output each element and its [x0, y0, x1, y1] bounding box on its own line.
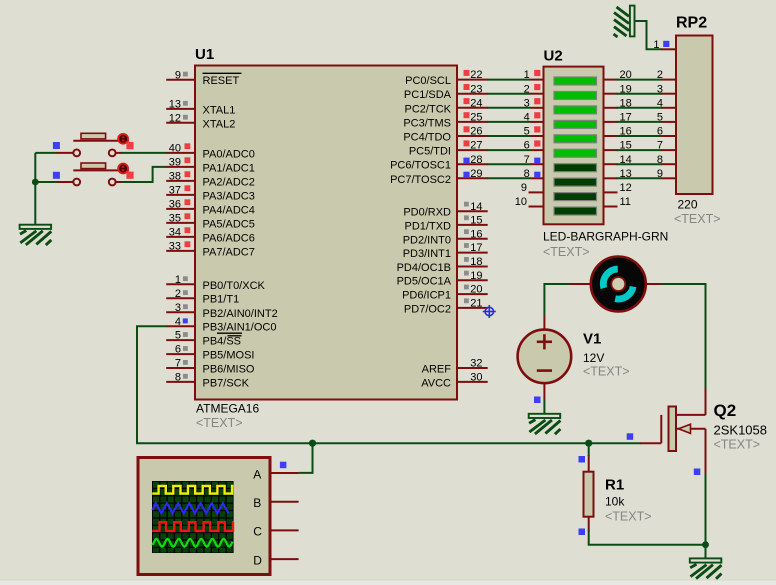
U2 LED segment 10 (off) — [554, 207, 597, 215]
wire U2 pin 19 to RP2 pin 3 — [617, 93, 662, 95]
svg-text:PA1/ADC1: PA1/ADC1 — [203, 162, 255, 174]
svg-text:XTAL1: XTAL1 — [203, 104, 236, 116]
RP2 pin 5 — [657, 112, 676, 124]
U1 pin 26 PC4/TDO — [403, 126, 487, 144]
svg-text:40: 40 — [169, 143, 181, 155]
svg-text:PD1/TXD: PD1/TXD — [405, 220, 452, 232]
svg-text:8: 8 — [657, 154, 663, 166]
origin marker at U1 pin 21 — [483, 305, 496, 318]
wire anchor marker button 2 — [53, 172, 60, 179]
svg-text:PA7/ADC7: PA7/ADC7 — [203, 246, 255, 258]
push button 1 — [56, 133, 129, 156]
U1 pin 4 PB3/AIN1/OC0 — [166, 316, 276, 334]
wire U1 PC5 to U2 pin 6 — [487, 149, 531, 151]
svg-text:B: B — [253, 496, 261, 510]
motor — [569, 257, 662, 312]
U1 pin 1 PB0/T0/XCK — [166, 274, 265, 292]
U2 LED segment 9 (off) — [554, 193, 597, 201]
U2 LED segment 1 (lit) — [554, 77, 597, 85]
svg-text:32: 32 — [470, 358, 482, 370]
node junction at button rail — [32, 179, 39, 186]
U1 pin 21 PD7/OC2 — [404, 298, 488, 316]
oscilloscope channel A pin — [253, 467, 298, 481]
svg-text:5: 5 — [657, 112, 663, 124]
svg-text:9: 9 — [657, 168, 663, 180]
U1 pin 37 PA3/ADC3 — [166, 185, 255, 203]
state marker button 1 — [126, 142, 133, 149]
RP2 pin 9 — [657, 168, 676, 180]
wire U1 PC0 to U2 pin 1 — [487, 79, 531, 81]
U2 LED segment 2 (lit) — [554, 91, 597, 99]
svg-text:2: 2 — [175, 288, 181, 300]
svg-text:4: 4 — [524, 112, 530, 124]
svg-text:PC3/TMS: PC3/TMS — [403, 117, 451, 129]
U2 pin 6 — [524, 140, 544, 152]
svg-text:26: 26 — [470, 126, 482, 138]
wire U1 PC4 to U2 pin 5 — [487, 135, 531, 137]
wire motor right terminal to Q2 drain — [662, 284, 706, 387]
svg-text:39: 39 — [169, 157, 181, 169]
svg-text:LED-BARGRAPH-GRN: LED-BARGRAPH-GRN — [543, 230, 668, 244]
wire R1 top drop — [588, 443, 590, 456]
ground (below V1) — [529, 414, 561, 434]
U1 pin 22 PC0/SCL — [405, 69, 488, 87]
U2 LED segment 5 (lit) — [554, 135, 597, 143]
svg-text:<TEXT>: <TEXT> — [714, 438, 761, 452]
svg-text:AREF: AREF — [422, 364, 452, 376]
node junction at R1 top — [585, 440, 592, 447]
scope trace channel D (green sine wave) — [153, 539, 233, 547]
U2 LED segment 7 (off) — [554, 164, 597, 172]
U1 pin 25 PC3/TMS — [403, 112, 487, 130]
U2 pin 4 — [524, 112, 544, 124]
svg-text:6: 6 — [175, 344, 181, 356]
svg-text:RP2: RP2 — [676, 15, 707, 32]
scope trace channel A (yellow square wave) — [152, 486, 233, 494]
U1 pin 9 RESET — [166, 69, 241, 87]
U1 pin 24 PC2/TCK — [405, 97, 488, 115]
U2 LED segment 3 (lit) — [554, 106, 597, 114]
RP2 pin 8 — [657, 154, 676, 166]
svg-text:2SK1058: 2SK1058 — [714, 423, 768, 438]
wire junction to scope channel A — [299, 443, 313, 473]
state marker RP2 pin 1 — [663, 41, 669, 47]
svg-text:4: 4 — [657, 97, 663, 109]
U2 pin 14 — [604, 154, 632, 166]
wire U2 pin 15 to RP2 pin 7 — [617, 149, 662, 151]
svg-text:9: 9 — [521, 182, 527, 194]
svg-text:PB1/T1: PB1/T1 — [203, 294, 240, 306]
transistor Q2 — [640, 387, 706, 474]
U1 pin 2 PB1/T1 — [166, 288, 239, 306]
wire anchor marker button 1 — [53, 142, 60, 149]
svg-text:22: 22 — [470, 69, 482, 81]
U1 pin 32 AREF — [422, 358, 488, 376]
push button 2 — [56, 163, 129, 185]
svg-text:V1: V1 — [583, 331, 601, 348]
ground (left, below buttons) — [20, 225, 52, 245]
U2 pin 5 — [524, 126, 544, 138]
svg-text:7: 7 — [657, 140, 663, 152]
wire anchor marker at R1 top — [579, 456, 586, 463]
wire button 1 to U1 PA0 — [121, 152, 167, 154]
svg-text:AVCC: AVCC — [421, 377, 451, 389]
svg-text:PB0/T0/XCK: PB0/T0/XCK — [203, 280, 266, 292]
svg-text:PC5/TDI: PC5/TDI — [409, 146, 451, 158]
svg-text:A: A — [253, 467, 261, 481]
state marker button 2 — [126, 172, 133, 179]
svg-text:PC4/TDO: PC4/TDO — [403, 132, 451, 144]
svg-text:ATMEGA16: ATMEGA16 — [196, 402, 259, 416]
wire U2 pin 20 to RP2 pin 2 — [617, 79, 662, 81]
svg-text:Q2: Q2 — [714, 401, 737, 420]
RP2 pin 4 — [657, 97, 676, 109]
U2 pin 8 — [524, 168, 544, 180]
svg-text:U1: U1 — [195, 46, 214, 63]
svg-text:PA3/ADC3: PA3/ADC3 — [203, 190, 255, 202]
svg-text:5: 5 — [175, 330, 181, 342]
svg-text:12: 12 — [620, 182, 632, 194]
wire U2 pin 18 to RP2 pin 4 — [617, 107, 662, 109]
wire Q2 source to ground net — [705, 473, 707, 545]
svg-text:1: 1 — [524, 69, 530, 81]
svg-text:29: 29 — [470, 168, 482, 180]
wire anchor marker at V1 negative — [534, 397, 541, 404]
svg-text:7: 7 — [175, 358, 181, 370]
RP2 pin 2 — [657, 69, 676, 81]
svg-text:9: 9 — [175, 69, 181, 81]
U1 pin 33 PA7/ADC7 — [166, 241, 255, 259]
wire button 2 to U1 PA1 — [121, 167, 167, 182]
svg-text:PD3/INT1: PD3/INT1 — [403, 248, 451, 260]
svg-text:PA4/ADC4: PA4/ADC4 — [203, 204, 255, 216]
svg-text:25: 25 — [470, 112, 482, 124]
svg-text:2: 2 — [657, 69, 663, 81]
U1 pin 15 PD1/TXD — [405, 215, 488, 233]
svg-text:4: 4 — [175, 316, 181, 328]
svg-text:3: 3 — [175, 302, 181, 314]
wire U1 PC6 to U2 pin 7 — [487, 163, 531, 165]
wire R1 bottom to ground net — [589, 530, 706, 545]
svg-text:PC6/TOSC1: PC6/TOSC1 — [390, 160, 451, 172]
svg-text:PA2/ADC2: PA2/ADC2 — [203, 176, 255, 188]
wire junction to bottom ground — [705, 545, 707, 559]
U2 pin 20 — [604, 69, 632, 81]
U1 pin 28 PC6/TOSC1 — [390, 154, 488, 172]
svg-text:21: 21 — [470, 298, 482, 310]
svg-text:PB6/MISO: PB6/MISO — [203, 364, 255, 376]
U2 pin 2 — [524, 83, 544, 95]
U1 pin 36 PA4/ADC4 — [166, 199, 255, 217]
svg-text:6: 6 — [657, 126, 663, 138]
U2 pin 13 — [604, 168, 632, 180]
RP2 pin 1 — [653, 39, 676, 51]
U2 pin 3 — [524, 97, 544, 109]
svg-text:30: 30 — [470, 372, 482, 384]
RP2 pin 3 — [657, 83, 676, 95]
svg-text:8: 8 — [524, 168, 530, 180]
wire U1 PC7 to U2 pin 8 — [487, 177, 531, 179]
svg-text:11: 11 — [620, 196, 631, 208]
U1 pin 35 PA5/ADC5 — [166, 213, 255, 231]
svg-text:38: 38 — [169, 171, 181, 183]
U2 pin 9 — [521, 182, 544, 194]
wire U2 pin 17 to RP2 pin 5 — [617, 121, 662, 123]
U1 pin 12 XTAL2 — [166, 112, 235, 130]
svg-text:17: 17 — [470, 242, 482, 254]
RP2 pin 6 — [657, 126, 676, 138]
svg-text:C: C — [253, 525, 262, 539]
U1 pin 40 PA0/ADC0 — [166, 143, 255, 161]
svg-text:R1: R1 — [605, 477, 624, 494]
U2 pin 1 — [524, 69, 544, 81]
svg-text:<TEXT>: <TEXT> — [583, 365, 630, 379]
U1 pin 29 PC7/TOSC2 — [390, 168, 488, 186]
RP2 pin 7 — [657, 140, 676, 152]
U1 pin 16 PD2/INT0 — [403, 228, 488, 246]
wire U1 PC2 to U2 pin 3 — [487, 107, 531, 109]
U2 LED segment 8 (off) — [554, 178, 597, 186]
U1 pin 17 PD3/INT1 — [403, 242, 488, 260]
U2 pin 16 — [604, 126, 632, 138]
wire U1 PC3 to U2 pin 4 — [487, 121, 531, 123]
oscilloscope screen grid — [152, 481, 234, 553]
U1 pin 13 XTAL1 — [166, 99, 235, 117]
U1 pin 27 PC5/TDI — [409, 140, 488, 158]
wire button 2 left to ground rail — [35, 181, 56, 183]
U1 pin 6 PB5/MOSI — [166, 344, 254, 362]
wire button 1 left to ground rail — [35, 152, 56, 154]
wire U1 PC1 to U2 pin 2 — [487, 93, 531, 95]
wire RP2 pin 1 to ground — [635, 21, 662, 49]
node junction at bottom right — [702, 541, 709, 548]
svg-text:13: 13 — [169, 99, 181, 111]
node junction at scope branch — [309, 440, 316, 447]
svg-text:PB3/AIN1/OC0: PB3/AIN1/OC0 — [203, 322, 277, 334]
svg-text:PD4/OC1B: PD4/OC1B — [397, 262, 451, 274]
U2 pin 11 — [604, 196, 631, 208]
svg-text:PD7/OC2: PD7/OC2 — [404, 303, 451, 315]
svg-text:D: D — [253, 553, 262, 567]
U2 pin 10 — [515, 196, 544, 208]
svg-text:24: 24 — [470, 97, 482, 109]
svg-text:PD2/INT0: PD2/INT0 — [403, 234, 451, 246]
U1 pin 39 PA1/ADC1 — [166, 157, 255, 175]
oscilloscope channel D pin — [253, 553, 298, 567]
battery V1 — [518, 316, 572, 400]
svg-text:28: 28 — [470, 154, 482, 166]
svg-text:PB2/AIN0/INT2: PB2/AIN0/INT2 — [203, 308, 278, 320]
svg-text:PC0/SCL: PC0/SCL — [405, 75, 451, 87]
svg-text:PB7/SCK: PB7/SCK — [203, 377, 250, 389]
svg-text:PC2/TCK: PC2/TCK — [405, 103, 452, 115]
U1 pin 34 PA6/ADC6 — [166, 227, 255, 245]
wire motor left terminal to V1 positive — [544, 284, 569, 316]
svg-text:23: 23 — [470, 83, 482, 95]
U1 pin 5 PB4/SS — [166, 330, 241, 348]
svg-text:34: 34 — [169, 227, 181, 239]
svg-text:27: 27 — [470, 140, 482, 152]
svg-text:3: 3 — [524, 97, 530, 109]
svg-text:10k: 10k — [605, 495, 625, 509]
U2 pin 7 — [524, 154, 544, 166]
oscilloscope channel B pin — [253, 496, 298, 510]
U1 pin 14 PD0/RXD — [403, 201, 487, 219]
svg-text:<TEXT>: <TEXT> — [543, 245, 590, 259]
svg-text:19: 19 — [470, 270, 482, 282]
svg-text:16: 16 — [470, 228, 482, 240]
U1 pin 8 PB7/SCK — [166, 372, 249, 390]
svg-text:33: 33 — [169, 241, 181, 253]
svg-text:14: 14 — [470, 201, 482, 213]
ground (top, at RP2 pin 1) — [614, 6, 635, 37]
wire U2 pin 13 to RP2 pin 9 — [617, 177, 662, 179]
svg-text:15: 15 — [470, 215, 482, 227]
wire anchor marker on source wire — [694, 469, 701, 476]
wire anchor marker at R1 bottom — [579, 529, 586, 536]
wire ground rail vertical — [34, 153, 36, 225]
svg-text:PD5/OC1A: PD5/OC1A — [397, 276, 452, 288]
svg-text:36: 36 — [169, 199, 181, 211]
svg-text:35: 35 — [169, 213, 181, 225]
U1 pin 23 PC1/SDA — [404, 83, 488, 101]
wire anchor marker on gate wire — [627, 433, 634, 440]
svg-text:12V: 12V — [583, 351, 604, 365]
scope trace channel C (red square wave) — [152, 522, 233, 531]
resistor pack RP2 body — [676, 36, 713, 195]
LED bargraph U2 body — [544, 67, 604, 225]
svg-text:220: 220 — [678, 198, 698, 212]
U1 pin 3 PB2/AIN0/INT2 — [166, 302, 278, 320]
svg-text:20: 20 — [470, 284, 482, 296]
U1 pin 7 PB6/MISO — [166, 358, 255, 376]
U1 pin 30 AVCC — [421, 372, 487, 390]
ground (bottom right) — [690, 558, 722, 578]
U2 pin 15 — [604, 140, 632, 152]
svg-text:10: 10 — [515, 196, 527, 208]
wire U2 pin 16 to RP2 pin 6 — [617, 135, 662, 137]
svg-text:7: 7 — [524, 154, 530, 166]
svg-text:XTAL2: XTAL2 — [203, 118, 236, 130]
svg-text:8: 8 — [175, 372, 181, 384]
svg-text:PC1/SDA: PC1/SDA — [404, 89, 452, 101]
scope trace channel B (blue triangle wave) — [153, 503, 229, 513]
wire V1 negative to ground — [543, 400, 545, 414]
svg-text:1: 1 — [175, 274, 181, 286]
U2 LED segment 6 (lit) — [554, 149, 597, 157]
U1 pin 20 PD6/ICP1 — [402, 284, 488, 302]
IC U1 ATMEGA16 body — [195, 66, 457, 400]
U2 pin 17 — [604, 112, 632, 124]
svg-text:37: 37 — [169, 185, 181, 197]
resistor R1 — [584, 455, 594, 532]
svg-text:PA6/ADC6: PA6/ADC6 — [203, 232, 255, 244]
oscilloscope channel C pin — [253, 525, 298, 539]
svg-text:PC7/TOSC2: PC7/TOSC2 — [390, 174, 451, 186]
U1 pin 19 PD5/OC1A — [397, 270, 488, 288]
wire U2 pin 14 to RP2 pin 8 — [617, 163, 662, 165]
U2 pin 12 — [604, 182, 632, 194]
wire anchor marker at scope channel A — [280, 462, 287, 469]
svg-text:PD6/ICP1: PD6/ICP1 — [402, 290, 451, 302]
svg-text:PA5/ADC5: PA5/ADC5 — [203, 218, 255, 230]
svg-text:PD0/RXD: PD0/RXD — [403, 207, 451, 219]
svg-text:PB5/MOSI: PB5/MOSI — [203, 350, 255, 362]
U2 pin 18 — [604, 97, 632, 109]
svg-text:5: 5 — [524, 126, 530, 138]
U2 pin 19 — [604, 83, 632, 95]
svg-text:<TEXT>: <TEXT> — [605, 510, 652, 524]
svg-text:PB4/SS: PB4/SS — [203, 336, 242, 348]
svg-text:3: 3 — [657, 83, 663, 95]
svg-text:6: 6 — [524, 140, 530, 152]
wire junction to Q2 gate — [589, 442, 641, 444]
svg-text:<TEXT>: <TEXT> — [196, 416, 243, 430]
U2 LED segment 4 (lit) — [554, 120, 597, 128]
svg-text:2: 2 — [524, 83, 530, 95]
wire U1 PB3 to net (left drop) — [137, 326, 589, 443]
U1 pin 38 PA2/ADC2 — [166, 171, 255, 189]
U1 pin 18 PD4/OC1B — [397, 256, 488, 274]
oscilloscope body — [138, 458, 270, 575]
svg-text:12: 12 — [169, 112, 181, 124]
svg-text:RESET: RESET — [203, 75, 240, 87]
svg-text:18: 18 — [470, 256, 482, 268]
svg-text:U2: U2 — [544, 48, 563, 65]
svg-text:<TEXT>: <TEXT> — [674, 212, 721, 226]
svg-text:PA0/ADC0: PA0/ADC0 — [203, 148, 255, 160]
